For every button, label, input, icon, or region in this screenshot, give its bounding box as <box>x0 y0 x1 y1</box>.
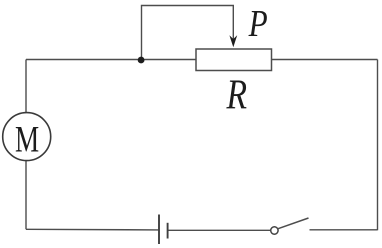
switch lever <box>278 218 309 229</box>
motor label M <box>15 119 39 160</box>
node junction dot <box>138 57 145 64</box>
svg-text:R: R <box>226 72 247 118</box>
wire top right segment <box>272 59 378 61</box>
switch pivot circle <box>271 227 278 234</box>
wire bottom right segment <box>310 229 378 231</box>
slider arrowhead P <box>229 35 237 47</box>
battery long plate <box>158 215 160 245</box>
label R <box>226 72 247 118</box>
rheostat R body <box>196 49 272 71</box>
label P <box>248 2 268 45</box>
motor M circle <box>3 113 51 161</box>
wire right vertical <box>377 60 379 231</box>
svg-text:M: M <box>15 119 39 160</box>
wire bottom middle segment <box>168 229 271 231</box>
wire top left segment <box>26 59 196 61</box>
wire left vertical lower <box>25 161 27 230</box>
wire slider tap (up, across, down) <box>142 6 234 60</box>
battery short plate <box>167 223 169 239</box>
wire left vertical upper <box>25 60 27 113</box>
wire bottom left segment <box>26 228 159 231</box>
svg-text:P: P <box>248 2 268 45</box>
